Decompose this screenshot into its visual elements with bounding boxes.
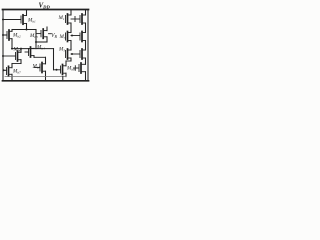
gate net line y48.6: [12, 48, 54, 50]
transistor M_b7: [7, 66, 13, 81]
jog M_b6 source to M_b7 drain: [12, 63, 21, 65]
cap tick on M2 gate: [74, 17, 76, 22]
transistor M2 drain from rail: [85, 10, 87, 15]
gray bulk line: [5, 76, 66, 78]
transistor M_b8: [61, 65, 67, 77]
transistor M_b3: [41, 27, 47, 42]
transistor M_b3 gate lead: [36, 33, 41, 35]
transistor M_b4: [29, 47, 35, 57]
junction dot bias T1 gate: [2, 19, 4, 21]
drop to rail x62.8: [62, 77, 64, 81]
node bias line y29.5: [12, 29, 36, 31]
transistor M2 gate lead: [71, 18, 80, 20]
wire from y29.5 down at x36: [35, 30, 37, 49]
transistor M_b2 gate lead: [3, 34, 7, 36]
transistor M4 gate lead: [71, 35, 80, 37]
transistor M_b6: [16, 49, 22, 64]
transistor M_b5 gate lead: [34, 67, 40, 69]
junction dot B source: [35, 41, 37, 43]
transistor M_b6 gate lead: [3, 55, 16, 57]
left bias wire: [2, 10, 4, 81]
wire down x53.5: [53, 49, 55, 70]
transistor M7 gate lead: [74, 67, 80, 69]
transistor M6 gate lead: [71, 53, 80, 55]
transistor M_b8 gate lead: [54, 69, 61, 71]
transistor M3: [66, 31, 72, 49]
junction dot bias M_b2 gate: [2, 34, 4, 36]
VDD rail: [3, 9, 89, 11]
transistor M2: [80, 14, 86, 31]
jog M_b4 source to M_b5 drain: [34, 56, 46, 58]
wire M_b3 source to x36: [36, 41, 47, 43]
transistor M_b1 gate lead: [3, 19, 21, 21]
transistor M_b4 gate stub: [25, 51, 29, 53]
transistor M_b2: [7, 30, 52, 49]
transistor M1 drain from rail: [70, 10, 72, 15]
ground rail: [3, 80, 89, 82]
junction dot bias M_b7 gate: [3, 69, 5, 71]
junction dot M6 gate: [71, 53, 73, 55]
junction dot A source: [11, 48, 13, 50]
transistor M7: [79, 63, 86, 81]
right border wire: [87, 10, 89, 81]
junction dot LT1 drain: [20, 48, 22, 50]
junction dot bias M_b6 gate: [2, 55, 4, 57]
junction dot M_b8 gate: [56, 69, 58, 71]
transistor M_b7 gate lead: [3, 69, 7, 71]
VB terminal dash: [49, 33, 52, 35]
transistor M_b1: [21, 10, 27, 30]
jog M5 source to M_b8 drain: [66, 60, 71, 62]
junction dot T1 source net: [26, 29, 28, 31]
transistor M_b5: [40, 63, 46, 81]
junction dot M4 gate: [71, 35, 73, 37]
transistor M5: [66, 49, 72, 61]
transistor M6: [80, 49, 86, 63]
tick on M7 gate lead: [74, 66, 76, 71]
transistor M1: [66, 14, 72, 31]
transistor M4: [80, 31, 86, 49]
